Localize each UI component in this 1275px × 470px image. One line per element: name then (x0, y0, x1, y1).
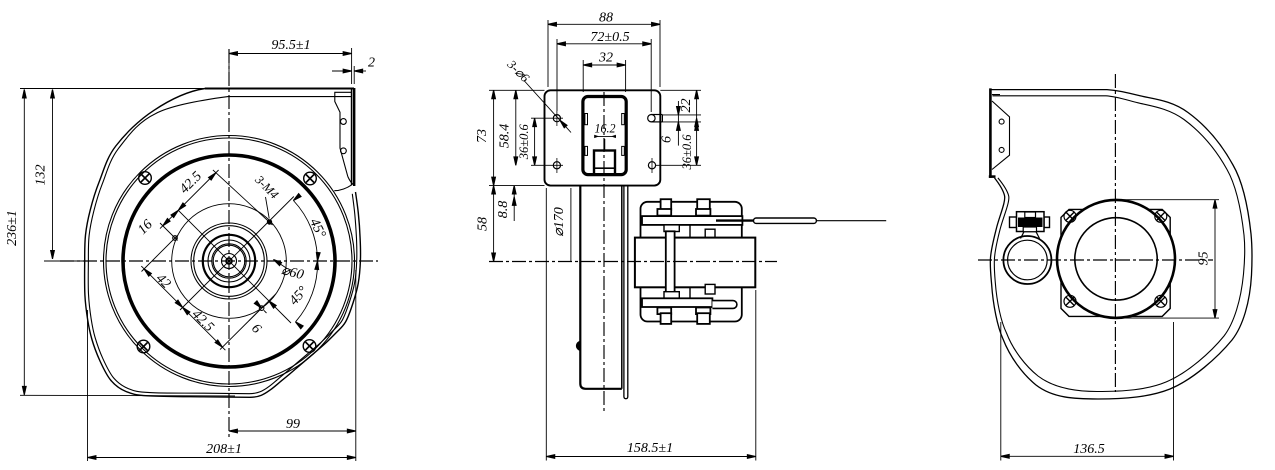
dim 8.8 (left) (496, 186, 516, 221)
scroll outer wall (990, 90, 1252, 399)
M4 hole H1 (filled) (267, 219, 272, 224)
lead wire (716, 218, 886, 223)
inlet rolled edge circle outer (104, 136, 355, 387)
M4 hole H2 (173, 236, 178, 241)
screw bottom-left (137, 340, 150, 353)
dim 95 (right) (1120, 200, 1219, 318)
horizontal centerline (60, 260, 378, 262)
leader 3-dia6 (504, 57, 571, 133)
svg-text:136.5: 136.5 (1073, 442, 1105, 457)
slot tab upper-right (622, 114, 625, 125)
svg-text:88: 88 (599, 10, 613, 25)
svg-text:72±0.5: 72±0.5 (590, 30, 629, 45)
flange hole lower (999, 147, 1004, 152)
volute housing outer wall (85, 89, 361, 398)
dim 136.5 (bottom) (1001, 322, 1174, 461)
inlet tube outer circle (1003, 236, 1051, 284)
motor body circle (1057, 200, 1175, 318)
mounting plate (545, 90, 661, 185)
shaft center circle (226, 258, 232, 264)
plate screw top-right (1155, 210, 1167, 222)
outlet flange bracket plate with bevels (335, 92, 352, 176)
inlet ring thick circle (123, 155, 335, 367)
housing top edge (thick) (205, 88, 354, 90)
plate screw top-left (1064, 210, 1076, 222)
motor frame (641, 202, 742, 322)
scroll inner wall (993, 96, 1245, 392)
leader 3-M4 (252, 172, 282, 219)
bottom step piece (664, 292, 679, 299)
terminal block (1010, 212, 1050, 239)
extension stub H2 to M (160, 223, 178, 241)
svg-text:95: 95 (1197, 252, 1212, 266)
bolt head bottom-right (697, 313, 710, 324)
screw top-right (304, 172, 317, 185)
plate hole bottom-left (553, 158, 560, 173)
svg-text:99: 99 (286, 417, 300, 432)
dim 208±1 (bottom) (88, 310, 356, 461)
plate hole bottom-right (648, 158, 655, 173)
dims 22 / 6 / 36±0.6 (right column) (656, 90, 701, 170)
dia170 label (552, 188, 571, 262)
bolt shank lines (689, 225, 691, 298)
svg-text:95.5±1: 95.5±1 (271, 38, 310, 53)
washer bottom-left (657, 308, 671, 315)
dim 236±1 (far left) (5, 90, 235, 396)
housing front wall (580, 186, 622, 389)
flange hole upper (341, 119, 347, 125)
dim 36±0.6 (left) (517, 118, 563, 165)
dim 132 (left) (20, 89, 229, 262)
svg-text:73: 73 (475, 129, 490, 143)
bolt head top-right (697, 199, 710, 210)
svg-text:8.8: 8.8 (496, 201, 511, 219)
flange hole lower (341, 148, 347, 154)
dim 158.5±1 (bottom) (546, 188, 756, 461)
dim 2 (flange thickness) (332, 56, 375, 73)
svg-text:22: 22 (679, 99, 694, 113)
plate screw bottom-right (1155, 295, 1167, 307)
screw top-left (139, 172, 152, 185)
dim 88 (top) (548, 10, 660, 87)
svg-text:2: 2 (368, 56, 375, 71)
volute housing inner wall (88, 97, 357, 394)
outlet flange face (edge-on, right) (352, 88, 355, 186)
hub circle r21 (208, 240, 250, 282)
slot tab lower-left (585, 146, 588, 155)
dim 58.4 (left) (498, 90, 518, 165)
top step piece (664, 225, 679, 232)
horizontal centerline (978, 259, 1213, 261)
svg-text:36±0.6: 36±0.6 (517, 123, 531, 160)
svg-text:36±0.6: 36±0.6 (680, 134, 694, 171)
plate screw bottom-left (1064, 295, 1076, 307)
bottom bracket bar (642, 298, 712, 307)
dims 73 / 58 (left column) (475, 90, 545, 261)
extension stub H1 to T (213, 170, 273, 225)
volute tongue curl (334, 177, 353, 191)
dim 72±0.5 (top) (557, 30, 651, 112)
motor inner circle (1075, 218, 1157, 300)
bracket flange bar (666, 231, 675, 294)
shaft stud (712, 301, 736, 309)
hub circle r15.8 (213, 245, 245, 277)
hub circle r35.3 (194, 226, 265, 297)
angular dim arc 45 deg (x2) (287, 194, 329, 329)
rivet knob (576, 341, 580, 350)
hub thick circle r26.2 (203, 235, 255, 287)
hub circle r17.2 (212, 244, 246, 278)
stator core (635, 238, 755, 288)
bottom bobbin piece (705, 284, 715, 294)
washer top-left (657, 209, 671, 216)
svg-text:16.2: 16.2 (595, 121, 616, 136)
svg-text:158.5±1: 158.5±1 (627, 441, 673, 456)
hub circle r38 (191, 223, 267, 299)
inlet rolled edge circle inner (106, 138, 352, 384)
vertical centerline (1114, 74, 1116, 392)
svg-text:32: 32 (598, 51, 613, 66)
plate hole top-left (553, 111, 560, 126)
housing back plate (624, 186, 628, 399)
housing vertical centerline (603, 92, 605, 414)
screw bottom-right (303, 340, 316, 353)
bolt head top-left (661, 199, 672, 210)
diagonal axis D1 (45 deg through center) (180, 197, 294, 311)
plate slot (583, 97, 626, 175)
dim 95.5±1 (top) (229, 38, 354, 84)
flange bracket plate with bevels (992, 95, 1010, 170)
svg-text:58: 58 (476, 217, 491, 231)
motor horizontal centerline (489, 261, 777, 263)
outlet flange face (edge-on, left) (989, 88, 996, 177)
leader dia60 (272, 258, 305, 283)
slot sub-box (594, 151, 615, 175)
slot tab lower-right (622, 146, 625, 155)
dim 16.2 (slot) (594, 121, 616, 150)
dim 6 (H3 offset) (248, 294, 276, 337)
flange hole upper (999, 119, 1004, 124)
washer bottom-right (696, 308, 710, 315)
M4 hole H3 (259, 306, 266, 313)
washer top-right (696, 209, 710, 216)
bolt head bottom-left (661, 313, 672, 324)
bolt circle (3-M4) (172, 204, 287, 319)
terminal pin top-right (648, 115, 663, 122)
dim chain 42 / 42.5 (lower-left diagonal) (141, 266, 225, 350)
svg-text:208±1: 208±1 (206, 442, 242, 457)
vertical centerline (228, 49, 230, 438)
slot tab upper-left (585, 114, 588, 125)
diagonal axis D2 (135 deg through center) (178, 210, 291, 323)
extension stub H3 to B (220, 306, 264, 350)
svg-text:⌀170: ⌀170 (552, 207, 567, 236)
motor mounting plate (chamfered square) (1061, 209, 1170, 316)
top bracket bar (642, 216, 742, 225)
top bobbin piece (705, 229, 715, 239)
svg-text:58.4: 58.4 (498, 124, 513, 149)
inlet tube inner circle (1008, 240, 1048, 280)
extension stub H2 to A (142, 236, 178, 272)
svg-text:236±1: 236±1 (5, 210, 20, 246)
dim chain 42.5 / 16 (upper-left diagonal) (135, 169, 218, 238)
svg-text:6: 6 (660, 136, 675, 143)
dim 32 (top) (583, 51, 625, 93)
hub circle r7.5 (222, 254, 237, 269)
dim 99 (bottom) (229, 270, 356, 461)
svg-text:132: 132 (34, 165, 49, 186)
